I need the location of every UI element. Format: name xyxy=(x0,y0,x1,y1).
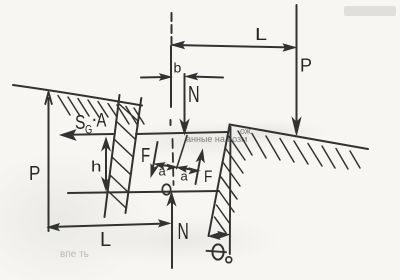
svg-text:A: A xyxy=(97,110,107,131)
svg-text:N: N xyxy=(188,82,200,107)
centerline (dash-dot, top) xyxy=(171,13,173,44)
shear band hatching xyxy=(108,103,138,208)
lower blade top edge xyxy=(230,125,369,150)
tilted line through N and O xyxy=(177,136,188,169)
dimension b arrow (right) xyxy=(190,77,223,78)
sheet bottom surface line xyxy=(68,191,219,193)
svg-text:анные на возм: анные на возм xyxy=(186,134,247,144)
svg-text:F: F xyxy=(141,144,150,167)
upper blade hatching xyxy=(58,96,144,127)
force arrow F (right) xyxy=(196,157,201,184)
svg-text:L: L xyxy=(100,229,111,251)
label theta0 xyxy=(212,244,223,259)
svg-text:b: b xyxy=(174,60,182,76)
dimension arrow theta0 xyxy=(212,235,226,236)
shear band right line xyxy=(126,98,142,213)
svg-text:L: L xyxy=(255,25,267,45)
label S_G·A xyxy=(75,109,107,137)
dimension b arrow (left) xyxy=(141,76,167,79)
lower blade left face xyxy=(209,126,230,237)
dimension a (right) xyxy=(180,168,196,171)
lower blade hatching (top band) xyxy=(238,131,360,169)
svg-text:впе ть: впе ть xyxy=(60,249,89,260)
force arrow P (right) xyxy=(296,5,298,127)
force arrow N (upper) xyxy=(184,74,186,126)
force arrow F (left) xyxy=(153,142,158,170)
svg-text:a: a xyxy=(159,164,167,179)
upper blade top edge xyxy=(13,85,142,106)
svg-text:a: a xyxy=(181,169,189,184)
svg-text:P: P xyxy=(29,162,40,185)
svg-text:P: P xyxy=(300,56,312,76)
svg-text:h: h xyxy=(91,158,101,175)
centerline (solid middle segment) xyxy=(170,46,172,107)
centerline (dashed) through sheet xyxy=(173,139,174,185)
vertical reference line at blade edge xyxy=(229,127,232,254)
dimension line L (top) xyxy=(173,45,294,48)
force arrow S_G·A xyxy=(67,133,114,136)
sheet top surface line xyxy=(136,132,228,134)
force arrow N (lower) xyxy=(171,199,173,268)
shear band left line xyxy=(105,95,120,217)
lower blade hatching (left face band) xyxy=(215,136,246,233)
svg-text:S: S xyxy=(75,111,85,133)
dimension h xyxy=(105,143,107,185)
svg-text:F: F xyxy=(204,168,212,187)
dimension a (left) xyxy=(158,165,174,167)
dimension line L (bottom) xyxy=(50,224,168,228)
force arrow P (left) xyxy=(48,98,50,231)
point O marker xyxy=(162,184,170,194)
svg-text:N: N xyxy=(178,219,189,245)
